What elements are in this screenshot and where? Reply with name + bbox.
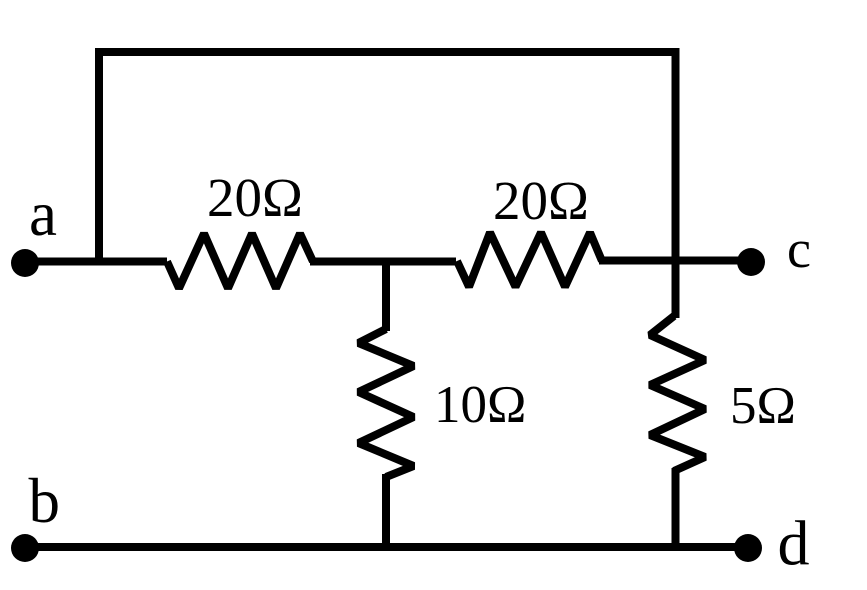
svg-text:10Ω: 10Ω xyxy=(434,376,526,434)
svg-text:5Ω: 5Ω xyxy=(730,377,796,435)
wire R1 to R2 through middle node xyxy=(310,258,456,266)
svg-text:c: c xyxy=(787,219,811,279)
resistor R4 5ohm vertical right xyxy=(650,316,705,471)
node b terminal dot xyxy=(11,534,39,562)
svg-text:a: a xyxy=(29,179,57,249)
resistor R3 10ohm vertical middle xyxy=(359,329,414,477)
wire bottom (b to d) xyxy=(28,543,744,551)
node d terminal dot xyxy=(734,534,762,562)
svg-text:b: b xyxy=(29,466,61,536)
svg-text:20Ω: 20Ω xyxy=(493,170,589,231)
wire R3 to bottom xyxy=(382,474,390,551)
svg-text:20Ω: 20Ω xyxy=(207,167,303,228)
wire a to R1 xyxy=(28,258,167,266)
wire left vertical riser xyxy=(95,48,103,264)
wire R2 to c xyxy=(599,257,744,265)
node a terminal dot xyxy=(11,249,39,277)
resistor R1 20ohm horizontal left xyxy=(167,234,313,289)
node c terminal dot xyxy=(737,248,765,276)
wire R4 to bottom xyxy=(672,468,680,551)
svg-text:d: d xyxy=(778,508,810,579)
wire right vertical riser xyxy=(672,48,680,318)
wire middle node down to R3 xyxy=(382,258,390,331)
wire top horizontal (a-side to c-side) xyxy=(95,48,679,56)
resistor R2 20ohm horizontal right xyxy=(457,233,602,287)
